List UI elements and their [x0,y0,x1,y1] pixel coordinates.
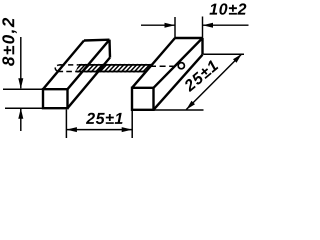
right prism far right edge [201,38,203,55]
seam hatching [73,64,155,74]
dim 25±1 diagonal extension bottom [154,109,204,111]
dim 8±0,2 extension bottom [5,107,43,109]
right prism far top edge [175,37,203,39]
dim 10±2 line right part [203,24,249,26]
dim 10±2 line left part [141,24,175,26]
dim 10±2 arrow right [203,23,214,28]
dim 8±0,2 line top [20,37,22,88]
left prism top-left edge [43,41,84,90]
seam hidden left end arc [55,65,61,72]
dim 10±2 extension left [174,17,176,38]
label 25±1 diagonal [183,59,219,92]
dim 25±1 bottom line [66,129,132,131]
label 10±2 [210,3,247,14]
label 8±0,2 [2,18,17,66]
right prism bottom-right edge [154,55,203,110]
left prism top-right edge [68,40,110,89]
dim 8±0,2 arrow bottom [18,108,23,119]
dim 25±1 diagonal line [186,54,242,110]
dim 25±1 diagonal extension top [204,53,245,55]
dim 25±1 bottom extension left [65,110,67,139]
dim 10±2 extension right [202,17,204,39]
left prism front face [43,89,68,108]
solder seam top edge [79,64,151,66]
axis dashed line on right prism [150,65,178,67]
solder seam bottom edge [76,71,147,73]
seam hidden bottom dashes [58,71,76,73]
dim 25±1 bottom arrow left [66,127,77,132]
dim 8±0,2 line bottom [20,109,22,131]
dim 25±1 diagonal arrow top [233,54,242,63]
dim 25±1 diagonal arrow bottom [186,101,195,110]
right prism top-left edge [132,38,175,88]
dim 10±2 arrow left [165,23,176,28]
left prism far right edge [108,40,111,58]
right prism front face [132,88,154,110]
solder wire circle [178,63,184,69]
right prism top-right edge [154,38,203,88]
label 25±1 bottom [86,113,123,124]
left prism far top edge [84,39,110,42]
seam hidden top dashes [60,64,79,66]
dim 8±0,2 extension top [3,88,43,90]
dim 25±1 bottom arrow right [122,127,133,132]
dim 25±1 bottom extension right [131,111,133,138]
left prism bottom-right edge [68,58,111,109]
dim 8±0,2 arrow top [18,78,23,89]
